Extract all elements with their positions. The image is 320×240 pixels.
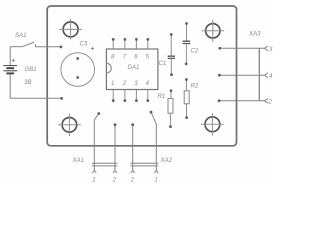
svg-text:SA1: SA1 <box>15 32 27 39</box>
svg-text:3В: 3В <box>24 79 31 86</box>
svg-text:DA1: DA1 <box>128 64 140 71</box>
svg-text:R2: R2 <box>191 83 199 90</box>
svg-text:1: 1 <box>111 81 114 87</box>
svg-text:XA3: XA3 <box>248 31 261 38</box>
svg-text:R1: R1 <box>158 93 166 100</box>
svg-text:2: 2 <box>122 81 127 87</box>
svg-text:C2: C2 <box>191 48 199 55</box>
svg-text:C1: C1 <box>159 60 167 67</box>
svg-text:GB1: GB1 <box>25 66 37 73</box>
svg-text:2: 2 <box>268 100 273 106</box>
svg-text:2: 2 <box>112 178 117 184</box>
svg-text:1: 1 <box>154 178 157 184</box>
svg-text:C3: C3 <box>80 41 88 48</box>
svg-text:XA1: XA1 <box>72 157 85 164</box>
svg-text:XA2: XA2 <box>160 157 173 164</box>
svg-text:2: 2 <box>130 178 135 184</box>
svg-text:1: 1 <box>92 178 95 184</box>
